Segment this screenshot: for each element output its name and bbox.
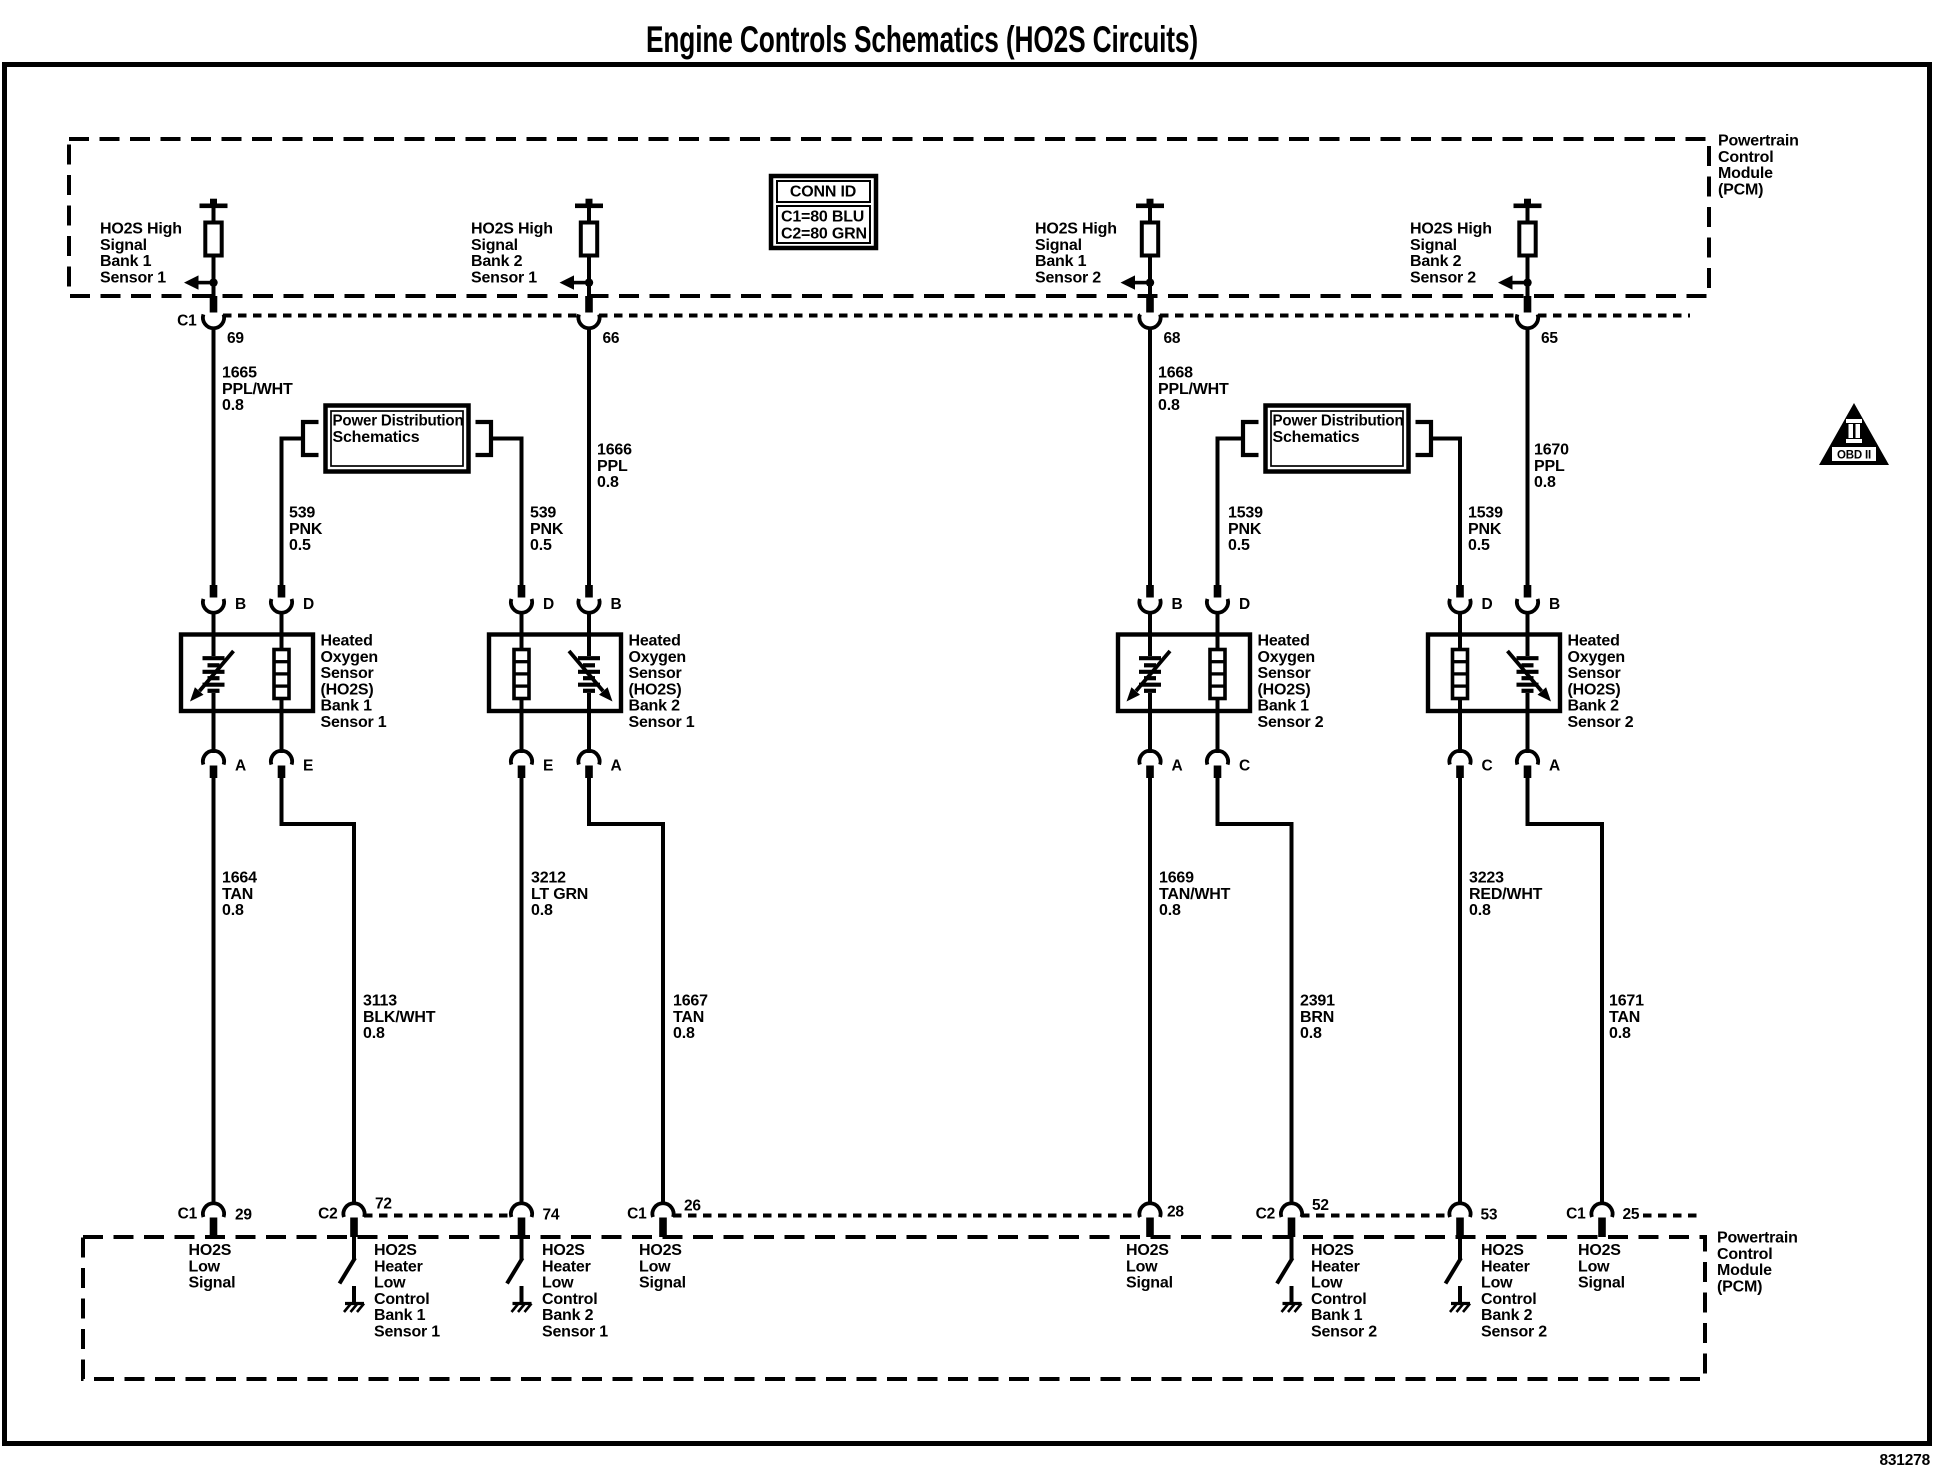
- node 5V reference T-bar B1S2: [1136, 199, 1164, 208]
- svg-text:Bank 1: Bank 1: [1311, 1307, 1363, 1324]
- connector terminal 74: [511, 1203, 532, 1217]
- svg-text:B: B: [611, 596, 622, 613]
- svg-text:Oxygen: Oxygen: [1568, 649, 1626, 666]
- connector pin B (top) B2S1: [585, 585, 593, 598]
- wire 1668 PPL/WHT: [1148, 327, 1152, 586]
- wire from T-bar to resistor B1S1: [212, 208, 216, 223]
- svg-text:26: 26: [684, 1198, 701, 1215]
- signal arrow B2S2: [1498, 275, 1528, 289]
- svg-text:831278: 831278: [1879, 1452, 1930, 1469]
- svg-text:Sensor 2: Sensor 2: [1258, 714, 1324, 731]
- svg-text:0.8: 0.8: [1158, 397, 1180, 414]
- svg-text:0.8: 0.8: [222, 902, 244, 919]
- PCM bottom dashed box: [83, 1237, 1705, 1379]
- svg-text:Control: Control: [1481, 1291, 1536, 1308]
- svg-text:C1: C1: [627, 1206, 647, 1223]
- svg-text:TAN: TAN: [673, 1009, 704, 1026]
- svg-text:Signal: Signal: [1126, 1275, 1173, 1292]
- svg-text:0.8: 0.8: [531, 902, 553, 919]
- connector pin C (bottom) B1S2: [1216, 711, 1220, 753]
- svg-text:Sensor 2: Sensor 2: [1481, 1324, 1547, 1341]
- svg-text:E: E: [543, 758, 553, 775]
- svg-text:1667: 1667: [673, 993, 708, 1010]
- heater element B2S2: [1458, 635, 1462, 650]
- svg-text:Sensor: Sensor: [629, 665, 682, 682]
- connector pin A (bottom) B2S2: [1526, 711, 1530, 753]
- svg-text:C1=80 BLU: C1=80 BLU: [781, 209, 864, 226]
- wire 1671 TAN (jogged): [1528, 778, 1603, 1205]
- resistor (HO2S high signal bias) B1S1: [205, 223, 221, 256]
- ground 53: [1450, 1304, 1470, 1313]
- connector pin A (bottom) B2S1: [587, 711, 591, 753]
- resistor (HO2S high signal bias) B2S1: [581, 223, 597, 256]
- wire 1670 PPL: [1526, 327, 1530, 586]
- svg-text:1664: 1664: [222, 870, 257, 887]
- svg-text:Sensor 2: Sensor 2: [1311, 1324, 1377, 1341]
- svg-text:Power Distribution: Power Distribution: [333, 413, 464, 430]
- svg-text:Sensor 1: Sensor 1: [321, 714, 387, 731]
- svg-text:CONN ID: CONN ID: [790, 184, 856, 201]
- svg-text:Signal: Signal: [1410, 237, 1457, 254]
- svg-text:C1: C1: [178, 1206, 198, 1223]
- svg-text:Sensor 2: Sensor 2: [1410, 269, 1476, 286]
- svg-text:PNK: PNK: [289, 521, 323, 538]
- svg-text:PNK: PNK: [1228, 521, 1262, 538]
- svg-text:PPL/WHT: PPL/WHT: [1158, 381, 1229, 398]
- svg-text:(HO2S): (HO2S): [1568, 681, 1621, 698]
- connector terminal 69: [203, 314, 224, 328]
- svg-text:Heated: Heated: [321, 633, 373, 650]
- heated oxygen sensor box B1S1: [181, 635, 313, 712]
- connector 68 pin stub B1S2: [1146, 296, 1154, 313]
- svg-text:0.5: 0.5: [1468, 537, 1490, 554]
- svg-text:Bank 1: Bank 1: [100, 253, 152, 270]
- svg-text:29: 29: [235, 1207, 252, 1224]
- svg-text:(HO2S): (HO2S): [629, 681, 682, 698]
- svg-text:HO2S High: HO2S High: [100, 221, 182, 238]
- svg-text:Sensor 1: Sensor 1: [374, 1324, 440, 1341]
- svg-text:Bank 1: Bank 1: [1035, 253, 1087, 270]
- svg-text:Control: Control: [1717, 1246, 1772, 1263]
- svg-text:Low: Low: [1311, 1275, 1343, 1292]
- svg-text:Powertrain: Powertrain: [1718, 133, 1799, 150]
- svg-text:HO2S: HO2S: [639, 1242, 682, 1259]
- connector pin B (top) B1S1: [210, 585, 218, 598]
- svg-text:D: D: [1482, 596, 1493, 613]
- svg-text:1669: 1669: [1159, 870, 1194, 887]
- connector 66 pin stub B2S1: [585, 296, 593, 313]
- svg-text:LT GRN: LT GRN: [531, 886, 588, 903]
- wire from power box 1 left: [282, 439, 304, 586]
- connector terminal 68: [1139, 314, 1160, 328]
- svg-text:0.8: 0.8: [1609, 1025, 1631, 1042]
- wire 2391 BRN (jogged): [1218, 778, 1292, 1205]
- svg-text:Sensor 1: Sensor 1: [542, 1324, 608, 1341]
- ground 72: [344, 1304, 364, 1313]
- svg-text:E: E: [303, 758, 313, 775]
- svg-text:53: 53: [1481, 1207, 1498, 1224]
- svg-text:Control: Control: [542, 1291, 597, 1308]
- heated oxygen sensor box B2S2: [1428, 635, 1560, 712]
- svg-text:Heated: Heated: [1258, 633, 1310, 650]
- wire from power box 1 right: [491, 439, 522, 586]
- connector terminal 52: [1281, 1203, 1302, 1217]
- junction dot B2S2: [1523, 278, 1531, 286]
- svg-text:BRN: BRN: [1300, 1009, 1334, 1026]
- svg-text:RED/WHT: RED/WHT: [1469, 886, 1543, 903]
- svg-text:Schematics: Schematics: [1273, 429, 1360, 446]
- svg-text:0.8: 0.8: [363, 1025, 385, 1042]
- wire resistor to junction B2S2: [1526, 256, 1530, 298]
- Power Distribution Schematics box 2: [1266, 406, 1409, 472]
- svg-text:Bank 1: Bank 1: [1258, 698, 1310, 715]
- svg-text:A: A: [611, 758, 622, 775]
- svg-text:HO2S: HO2S: [189, 1242, 232, 1259]
- PCM connector dotted line (bottom): [364, 1214, 512, 1218]
- svg-text:Heater: Heater: [374, 1258, 423, 1275]
- connector terminal 26: [652, 1203, 673, 1217]
- connector terminal 66: [578, 314, 599, 328]
- sensing element (variable battery) B2S1: [587, 635, 591, 657]
- connector pin A (bottom) B1S1: [212, 711, 216, 753]
- resistor (HO2S high signal bias) B1S2: [1142, 223, 1158, 256]
- svg-text:1668: 1668: [1158, 365, 1193, 382]
- svg-text:539: 539: [289, 505, 315, 522]
- wire resistor to junction B1S1: [212, 256, 216, 298]
- wire 1664 TAN: [212, 778, 216, 1205]
- svg-text:(PCM): (PCM): [1718, 181, 1763, 198]
- svg-text:Engine Controls Schematics (HO: Engine Controls Schematics (HO2S Circuit…: [646, 19, 1198, 60]
- connector pin E (bottom) B1S1: [280, 711, 284, 753]
- svg-text:Bank 2: Bank 2: [1568, 698, 1620, 715]
- connector terminal 28: [1139, 1203, 1160, 1217]
- sensing element (variable battery) B1S2: [1148, 635, 1152, 657]
- svg-text:PNK: PNK: [530, 521, 564, 538]
- svg-text:OBD II: OBD II: [1837, 450, 1871, 462]
- connector terminal 53: [1449, 1203, 1470, 1217]
- PCM connector C1/C2 dotted line (top): [223, 314, 579, 318]
- svg-text:0.8: 0.8: [1300, 1025, 1322, 1042]
- svg-text:Low: Low: [374, 1275, 406, 1292]
- wire from power box 2 left: [1218, 439, 1244, 586]
- svg-text:1670: 1670: [1534, 442, 1569, 459]
- resistor (HO2S high signal bias) B2S2: [1519, 223, 1535, 256]
- connector pin D (top) B1S1: [278, 585, 286, 598]
- left bracket connector of power box 2: [1243, 422, 1259, 455]
- wire 3212 LT GRN: [520, 778, 524, 1205]
- svg-text:B: B: [1549, 596, 1560, 613]
- svg-text:Power Distribution: Power Distribution: [1273, 413, 1404, 430]
- svg-text:Oxygen: Oxygen: [629, 649, 687, 666]
- junction dot B1S1: [209, 278, 217, 286]
- svg-text:HO2S: HO2S: [542, 1242, 585, 1259]
- svg-text:Bank 2: Bank 2: [1481, 1307, 1533, 1324]
- CONN ID table: [771, 176, 876, 248]
- svg-text:(PCM): (PCM): [1717, 1278, 1762, 1295]
- svg-text:0.5: 0.5: [289, 537, 311, 554]
- svg-text:Sensor: Sensor: [321, 665, 374, 682]
- svg-text:Signal: Signal: [639, 1275, 686, 1292]
- connector pin D (top) B1S2: [1214, 585, 1222, 598]
- svg-text:Bank 2: Bank 2: [471, 253, 523, 270]
- svg-text:Bank 2: Bank 2: [542, 1307, 594, 1324]
- svg-text:Heated: Heated: [629, 633, 681, 650]
- heater element B2S1: [520, 635, 524, 650]
- connector 65 pin stub B2S2: [1524, 296, 1532, 313]
- node 5V reference T-bar B1S1: [200, 199, 228, 208]
- svg-text:HO2S: HO2S: [1126, 1242, 1169, 1259]
- signal arrow B2S1: [560, 275, 590, 289]
- connector pin B (top) B2S2: [1524, 585, 1532, 598]
- svg-text:Control: Control: [1718, 149, 1773, 166]
- svg-text:D: D: [1239, 596, 1250, 613]
- wire from T-bar to resistor B2S1: [587, 208, 591, 223]
- svg-text:Signal: Signal: [471, 237, 518, 254]
- svg-text:C2: C2: [318, 1206, 337, 1223]
- svg-text:0.8: 0.8: [222, 397, 244, 414]
- svg-text:PPL: PPL: [1534, 458, 1565, 475]
- driver switch 74: [520, 1237, 524, 1259]
- wire 3113 BLK/WHT (jogged): [282, 778, 355, 1205]
- svg-text:TAN: TAN: [1609, 1009, 1640, 1026]
- svg-text:BLK/WHT: BLK/WHT: [363, 1009, 436, 1026]
- svg-text:3223: 3223: [1469, 870, 1504, 887]
- svg-text:HO2S High: HO2S High: [1035, 221, 1117, 238]
- svg-text:Bank 1: Bank 1: [321, 698, 373, 715]
- wire from T-bar to resistor B2S2: [1526, 208, 1530, 223]
- svg-text:Low: Low: [1578, 1258, 1610, 1275]
- wire 1665 PPL/WHT: [212, 327, 216, 586]
- svg-text:1539: 1539: [1228, 505, 1263, 522]
- ground 52: [1282, 1304, 1302, 1313]
- svg-text:3212: 3212: [531, 870, 566, 887]
- svg-text:72: 72: [375, 1196, 392, 1213]
- svg-text:65: 65: [1541, 330, 1558, 347]
- svg-text:28: 28: [1167, 1204, 1184, 1221]
- svg-text:Heated: Heated: [1568, 633, 1620, 650]
- svg-text:Heater: Heater: [542, 1258, 591, 1275]
- svg-text:66: 66: [603, 330, 620, 347]
- svg-text:Signal: Signal: [189, 1275, 236, 1292]
- node 5V reference T-bar B2S2: [1514, 199, 1542, 208]
- svg-text:Bank 2: Bank 2: [1410, 253, 1462, 270]
- signal arrow B1S2: [1121, 275, 1151, 289]
- svg-text:Module: Module: [1718, 165, 1773, 182]
- svg-text:Signal: Signal: [1578, 1275, 1625, 1292]
- svg-text:0.8: 0.8: [597, 474, 619, 491]
- svg-text:D: D: [303, 596, 314, 613]
- svg-text:Signal: Signal: [100, 237, 147, 254]
- sensing element (variable battery) B1S1: [212, 635, 216, 657]
- svg-text:HO2S: HO2S: [374, 1242, 417, 1259]
- svg-text:1539: 1539: [1468, 505, 1503, 522]
- heater element B1S2: [1216, 635, 1220, 650]
- svg-text:Oxygen: Oxygen: [321, 649, 379, 666]
- driver switch 52: [1290, 1237, 1294, 1259]
- svg-text:Sensor 1: Sensor 1: [100, 269, 166, 286]
- heated oxygen sensor box B2S1: [489, 635, 621, 712]
- svg-text:HO2S High: HO2S High: [471, 221, 553, 238]
- svg-text:Sensor 1: Sensor 1: [629, 714, 695, 731]
- svg-text:0.8: 0.8: [673, 1025, 695, 1042]
- svg-text:Sensor: Sensor: [1568, 665, 1621, 682]
- svg-text:C2=80 GRN: C2=80 GRN: [781, 226, 867, 243]
- connector pin C (bottom) B2S2: [1458, 711, 1462, 753]
- svg-text:C: C: [1239, 758, 1250, 775]
- connector terminal 72: [343, 1203, 364, 1217]
- svg-text:0.8: 0.8: [1534, 474, 1556, 491]
- svg-text:A: A: [1172, 758, 1183, 775]
- svg-text:Schematics: Schematics: [333, 429, 420, 446]
- Power Distribution Schematics box 1: [326, 406, 469, 472]
- svg-text:2391: 2391: [1300, 993, 1335, 1010]
- svg-text:HO2S: HO2S: [1311, 1242, 1354, 1259]
- svg-text:C1: C1: [177, 313, 197, 330]
- svg-text:B: B: [1172, 596, 1183, 613]
- right bracket connector of power box 1: [476, 422, 492, 455]
- svg-text:25: 25: [1623, 1206, 1640, 1223]
- OBD II symbol: [1819, 403, 1889, 465]
- svg-text:1665: 1665: [222, 365, 257, 382]
- svg-text:TAN/WHT: TAN/WHT: [1159, 886, 1231, 903]
- svg-text:Heater: Heater: [1481, 1258, 1530, 1275]
- svg-text:Control: Control: [374, 1291, 429, 1308]
- svg-text:HO2S High: HO2S High: [1410, 221, 1492, 238]
- right bracket connector of power box 2: [1416, 422, 1432, 455]
- svg-text:Sensor: Sensor: [1258, 665, 1311, 682]
- wire 3223 RED/WHT: [1458, 778, 1462, 1205]
- svg-text:PNK: PNK: [1468, 521, 1502, 538]
- wire 1669 TAN/WHT: [1148, 778, 1152, 1205]
- svg-text:Powertrain: Powertrain: [1717, 1230, 1798, 1247]
- svg-text:Bank 1: Bank 1: [374, 1307, 426, 1324]
- svg-text:(HO2S): (HO2S): [1258, 681, 1311, 698]
- connector pin D (top) B2S2: [1456, 585, 1464, 598]
- connector pin D (top) B2S1: [518, 585, 526, 598]
- wire from T-bar to resistor B1S2: [1148, 208, 1152, 223]
- wire 1667 TAN (jogged): [589, 778, 663, 1205]
- svg-text:A: A: [1549, 758, 1560, 775]
- svg-text:PPL: PPL: [597, 458, 628, 475]
- svg-text:68: 68: [1164, 330, 1181, 347]
- svg-text:A: A: [235, 758, 246, 775]
- driver switch 72: [352, 1237, 356, 1259]
- wire from power box 2 right: [1431, 439, 1460, 586]
- connector terminal 65: [1517, 314, 1538, 328]
- signal arrow B1S1: [184, 275, 214, 289]
- svg-text:Low: Low: [1481, 1275, 1513, 1292]
- wire resistor to junction B2S1: [587, 256, 591, 298]
- svg-text:Low: Low: [639, 1258, 671, 1275]
- connector pin E (bottom) B2S1: [520, 711, 524, 753]
- PCM top dashed box: [69, 139, 1709, 296]
- svg-text:539: 539: [530, 505, 556, 522]
- svg-text:Bank 2: Bank 2: [629, 698, 681, 715]
- connector pin A (bottom) B1S2: [1148, 711, 1152, 753]
- junction dot B1S2: [1146, 278, 1154, 286]
- svg-text:0.5: 0.5: [1228, 537, 1250, 554]
- svg-text:(HO2S): (HO2S): [321, 681, 374, 698]
- svg-text:HO2S: HO2S: [1481, 1242, 1524, 1259]
- svg-text:3113: 3113: [363, 993, 397, 1010]
- svg-text:C2: C2: [1256, 1206, 1275, 1223]
- svg-text:0.5: 0.5: [530, 537, 552, 554]
- svg-text:Low: Low: [542, 1275, 574, 1292]
- svg-text:C: C: [1482, 758, 1493, 775]
- wire resistor to junction B1S2: [1148, 256, 1152, 298]
- svg-text:Low: Low: [189, 1258, 221, 1275]
- svg-text:Sensor 1: Sensor 1: [471, 269, 537, 286]
- driver switch 53: [1458, 1237, 1462, 1259]
- sensing element (variable battery) B2S2: [1526, 635, 1530, 657]
- svg-text:1666: 1666: [597, 442, 632, 459]
- junction dot B2S1: [585, 278, 593, 286]
- connector terminal 25: [1591, 1203, 1612, 1217]
- svg-text:69: 69: [227, 330, 244, 347]
- ground 74: [512, 1304, 532, 1313]
- wire 1666 PPL: [587, 327, 591, 586]
- left bracket connector of power box 1: [303, 422, 319, 455]
- svg-text:Sensor 2: Sensor 2: [1035, 269, 1101, 286]
- connector pin B (top) B1S2: [1146, 585, 1154, 598]
- heater element B1S1: [280, 635, 284, 650]
- svg-text:Low: Low: [1126, 1258, 1158, 1275]
- svg-text:52: 52: [1312, 1197, 1329, 1214]
- svg-text:74: 74: [543, 1207, 560, 1224]
- svg-text:0.8: 0.8: [1469, 902, 1491, 919]
- svg-text:B: B: [235, 596, 246, 613]
- svg-text:1671: 1671: [1609, 993, 1644, 1010]
- svg-text:HO2S: HO2S: [1578, 1242, 1621, 1259]
- svg-text:Module: Module: [1717, 1262, 1772, 1279]
- heated oxygen sensor box B1S2: [1118, 635, 1250, 712]
- svg-text:0.8: 0.8: [1159, 902, 1181, 919]
- svg-text:C1: C1: [1566, 1206, 1586, 1223]
- connector 69 pin stub B1S1: [210, 296, 218, 313]
- svg-text:D: D: [543, 596, 554, 613]
- svg-text:PPL/WHT: PPL/WHT: [222, 381, 293, 398]
- svg-text:Control: Control: [1311, 1291, 1366, 1308]
- connector terminal 29: [203, 1203, 224, 1217]
- node 5V reference T-bar B2S1: [575, 199, 603, 208]
- svg-text:Oxygen: Oxygen: [1258, 649, 1316, 666]
- svg-text:Heater: Heater: [1311, 1258, 1360, 1275]
- svg-text:Sensor 2: Sensor 2: [1568, 714, 1634, 731]
- svg-text:Signal: Signal: [1035, 237, 1082, 254]
- svg-text:TAN: TAN: [222, 886, 253, 903]
